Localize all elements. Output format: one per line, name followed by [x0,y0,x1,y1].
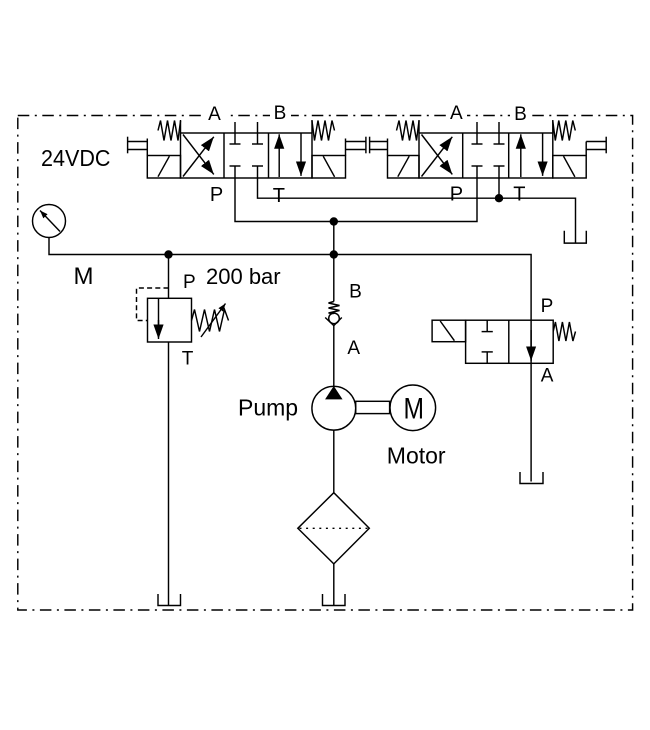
svg-text:Pump: Pump [238,395,298,421]
svg-text:Motor: Motor [387,442,446,468]
svg-text:A: A [208,104,221,125]
svg-text:A: A [541,366,554,387]
svg-text:P: P [541,296,554,317]
svg-text:P: P [183,272,196,293]
svg-text:P: P [210,184,223,206]
svg-text:M: M [403,392,424,425]
svg-text:B: B [349,281,362,302]
svg-text:T: T [182,349,194,370]
svg-text:B: B [274,103,287,124]
svg-text:T: T [513,184,525,206]
svg-text:B: B [514,104,527,125]
svg-text:P: P [450,184,463,206]
svg-text:A: A [450,103,463,124]
svg-text:M: M [74,263,94,290]
svg-text:24VDC: 24VDC [41,145,111,171]
svg-text:T: T [273,185,285,207]
svg-text:A: A [347,338,360,359]
svg-text:200 bar: 200 bar [206,264,281,289]
